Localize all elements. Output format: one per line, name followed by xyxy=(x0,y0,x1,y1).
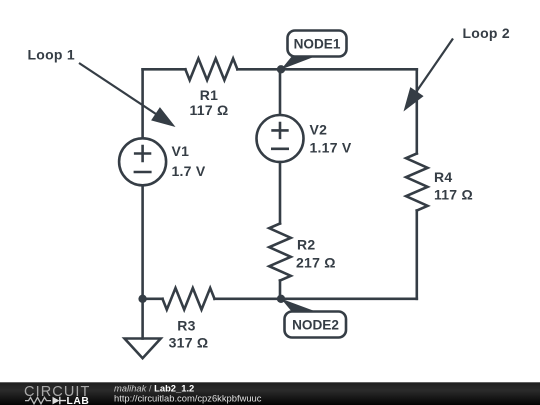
svg-text:117 Ω: 117 Ω xyxy=(190,102,229,118)
wire: left vertical lower segment (V1 to bottom wire) xyxy=(141,185,144,298)
wire: bottom horizontal right segment (R3 to right corner) xyxy=(215,297,417,300)
resistor R4 zigzag xyxy=(406,154,428,211)
svg-text:1.17 V: 1.17 V xyxy=(310,140,352,156)
footer logo diode bar and wire xyxy=(60,397,66,405)
svg-text:V2: V2 xyxy=(310,122,328,138)
svg-text:217 Ω: 217 Ω xyxy=(296,254,336,270)
wire: left vertical upper segment (top corner to V1) xyxy=(141,69,144,138)
svg-text:http://circuitlab.com/cpz6kkpb: http://circuitlab.com/cpz6kkpbfwuuc xyxy=(114,392,262,403)
node NODE1 flag box xyxy=(288,31,347,57)
V2 minus sign xyxy=(272,148,287,151)
footer black bar xyxy=(0,382,540,405)
V1 plus sign xyxy=(135,146,150,161)
node NODE2 flag box xyxy=(285,312,347,338)
svg-text:317 Ω: 317 Ω xyxy=(169,335,209,351)
wire: right vertical upper segment (top corner to R4) xyxy=(415,69,418,153)
footer logo resistor zigzag glyph xyxy=(25,397,51,403)
svg-text:Loop 2: Loop 2 xyxy=(463,25,510,41)
svg-text:R1: R1 xyxy=(200,87,218,103)
ground symbol triangle xyxy=(125,339,161,359)
svg-text:LAB: LAB xyxy=(67,396,90,405)
svg-text:1.7 V: 1.7 V xyxy=(172,163,206,179)
svg-text:V1: V1 xyxy=(172,143,190,159)
node NODE2 flag pointer wedge xyxy=(281,299,319,313)
annotation Loop 1 arrowhead xyxy=(151,107,175,127)
V1 minus sign xyxy=(135,171,150,174)
svg-text:NODE1: NODE1 xyxy=(294,36,341,51)
wire: middle vertical segment (R2 to NODE2) xyxy=(279,281,282,299)
svg-text:R4: R4 xyxy=(434,169,452,185)
node junction dot NODE1 xyxy=(277,65,285,73)
wire: ground stem xyxy=(141,299,144,339)
node NODE1 flag pointer wedge xyxy=(281,56,318,70)
wire: bottom horizontal left segment (node to R3) xyxy=(143,297,163,300)
wire: top horizontal left segment (V1 top to R1) xyxy=(143,68,186,71)
resistor R1 zigzag xyxy=(185,59,237,81)
annotation Loop 1 arrow line xyxy=(79,63,162,118)
wire: middle vertical segment (V2 to R2) xyxy=(279,162,282,224)
voltage source V2 circle xyxy=(257,115,304,162)
resistor R3 zigzag xyxy=(163,288,215,310)
voltage source V1 circle xyxy=(119,138,166,185)
svg-text:NODE2: NODE2 xyxy=(292,318,339,333)
svg-text:117 Ω: 117 Ω xyxy=(434,187,473,203)
svg-text:R2: R2 xyxy=(297,237,315,253)
annotation Loop 2 arrowhead xyxy=(404,87,424,111)
node junction dot NODE2 xyxy=(277,295,285,303)
wire: top horizontal right segment (R1 to right corner) xyxy=(237,68,416,71)
resistor R2 zigzag xyxy=(269,224,291,281)
node junction dot at R3/ground xyxy=(138,295,146,303)
V2 plus sign xyxy=(273,123,288,138)
svg-text:Loop 1: Loop 1 xyxy=(28,47,75,63)
annotation Loop 2 arrow line xyxy=(412,39,453,99)
footer logo diode glyph xyxy=(53,397,60,405)
wire: middle vertical upper segment (NODE1 to V2) xyxy=(279,69,282,115)
wire: right vertical lower segment (R4 to bottom corner) xyxy=(415,211,418,299)
svg-text:R3: R3 xyxy=(177,317,195,333)
